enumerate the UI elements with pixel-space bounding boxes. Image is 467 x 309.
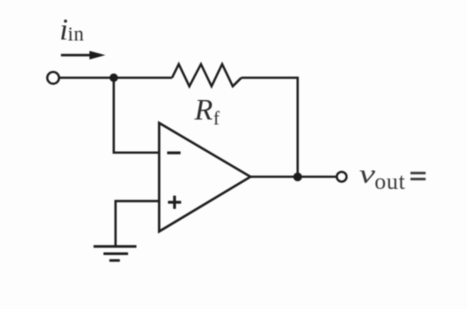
svg-text:f: f [213,108,220,129]
minus input marker [167,151,180,154]
wire feedback top and right vertical [241,78,297,177]
label v_out = [359,159,426,194]
wire input horizontal [59,77,172,79]
wire non-inverting input [116,201,160,246]
svg-text:out: out [374,169,405,194]
label i_in [59,11,84,46]
label Rf [193,94,220,130]
output terminal [337,172,347,182]
input terminal [47,72,59,84]
node output junction [293,172,302,181]
svg-text:R: R [193,94,212,127]
wire output [250,176,336,178]
svg-text:in: in [68,24,85,46]
op-amp U1 [159,123,250,232]
ground [94,246,137,260]
current arrow [61,51,105,60]
wire inverting feedback (junction down and right to op-amp) [114,78,159,153]
plus input marker [168,196,181,209]
resistor Rf [172,64,241,86]
node input junction [110,74,118,82]
